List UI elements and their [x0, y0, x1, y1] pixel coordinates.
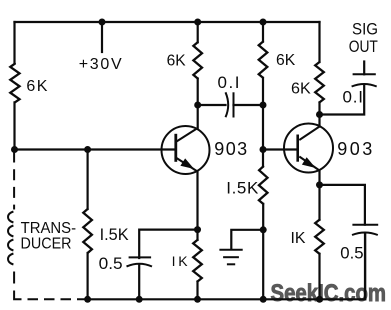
node Q1 collector top — [194, 19, 201, 26]
transistor Q2 903 — [284, 124, 333, 173]
svg-text:0.5: 0.5 — [99, 254, 123, 273]
ground symbol — [219, 250, 242, 264]
wire C3 lower lead — [364, 234, 366, 300]
wire Q2 collector lead — [318, 102, 320, 126]
svg-text:6K: 6K — [167, 53, 186, 70]
svg-text:SeekIC.com: SeekIC.com — [271, 280, 387, 307]
svg-text:6K: 6K — [291, 80, 311, 97]
wire R6 lower lead — [262, 204, 264, 299]
wire R8 lower lead — [318, 254, 320, 299]
wire left rail upper — [13, 22, 15, 64]
wire R4 upper lead — [318, 22, 320, 62]
svg-text:I.5K: I.5K — [226, 179, 259, 198]
capacitor C1 0.1 coupling — [226, 92, 234, 117]
capacitor C4 0.1 output — [352, 74, 377, 86]
svg-text:+30V: +30V — [79, 56, 122, 73]
wire Q2 emitter bypass branch — [320, 185, 365, 225]
wire Q1 emitter bypass branch — [139, 230, 197, 258]
resistor R8 1K (Q2 emitter) — [315, 220, 324, 254]
node Q2 collector — [316, 111, 323, 118]
node Q2 emitter — [316, 181, 323, 188]
wire +30V stub — [101, 22, 103, 52]
resistor R7 1K (Q1 emitter) — [193, 240, 202, 282]
node ground C2 — [136, 296, 143, 303]
svg-text:6K: 6K — [26, 78, 47, 95]
node ground R5 — [84, 296, 91, 303]
svg-text:DUCER: DUCER — [21, 236, 72, 253]
wire coupling cap left — [198, 104, 226, 106]
wire C2 lower lead — [138, 265, 140, 300]
svg-text:TRANS-: TRANS- — [21, 220, 77, 237]
wire top supply rail — [15, 21, 320, 23]
wire R7 lower lead — [196, 282, 198, 300]
resistor R3 6K (Q2 base bias upper) — [259, 42, 268, 78]
wire Q1 collector lower lead — [197, 79, 199, 129]
resistor R2 6K (Q1 collector load) — [193, 42, 202, 78]
svg-text:903: 903 — [214, 139, 247, 159]
wire Q2 emitter lead — [318, 171, 320, 220]
svg-text:IK: IK — [172, 253, 189, 269]
resistor R1 6K (input bias upper) — [10, 64, 19, 103]
wire Q2 collector to output — [320, 86, 365, 115]
resistor R4 6K (Q2 collector load) — [315, 62, 324, 102]
wire R3 upper lead — [262, 22, 264, 42]
svg-text:SIG: SIG — [352, 19, 378, 38]
wire R5 upper lead — [86, 150, 88, 210]
node +30V tap — [99, 19, 106, 26]
node ground R7 — [194, 296, 201, 303]
node R6 bottom — [260, 226, 267, 233]
wire ground branch — [231, 230, 263, 249]
wire left rail lower — [13, 102, 15, 150]
capacitor C2 0.5 (Q1 bypass) — [127, 257, 153, 266]
wire bottom ground rail — [88, 298, 366, 300]
svg-text:6K: 6K — [276, 52, 296, 69]
node R5 top — [84, 146, 91, 153]
svg-text:OUT: OUT — [349, 37, 378, 56]
resistor R5 1.5K (Q1 base bias lower) — [83, 209, 92, 253]
svg-text:0.I: 0.I — [343, 87, 364, 106]
wire Q1 emitter lead — [196, 172, 198, 240]
transducer dashed outline — [8, 152, 88, 300]
svg-text:903: 903 — [337, 139, 372, 159]
node input left — [11, 146, 18, 153]
svg-text:I.5K: I.5K — [100, 225, 130, 244]
svg-text:0.I: 0.I — [218, 73, 240, 92]
node ground interstage — [260, 296, 267, 303]
junction node dots — [11, 19, 323, 303]
wire C4 top lead — [363, 62, 365, 75]
resistor R6 1.5K (Q2 base bias lower) — [259, 167, 268, 204]
wire Q2 base lead — [263, 148, 298, 150]
capacitor C3 0.5 (Q2 bypass) — [352, 225, 378, 300]
svg-text:IK: IK — [291, 230, 306, 247]
node Q2 base — [260, 146, 267, 153]
node C1 left — [194, 102, 201, 109]
wire Q1 base rail — [15, 148, 176, 150]
node Q1 emitter — [194, 226, 201, 233]
svg-text:0.5: 0.5 — [340, 243, 363, 262]
wire Q1 collector upper lead — [197, 22, 199, 42]
wire interstage node line — [262, 78, 264, 167]
node ground R8 — [316, 296, 323, 303]
wire coupling cap right — [234, 104, 264, 106]
wire R5 lower lead — [86, 253, 88, 299]
transistor Q1 903 — [162, 126, 210, 174]
node R3 top — [260, 19, 267, 26]
node C1 right — [260, 102, 267, 109]
